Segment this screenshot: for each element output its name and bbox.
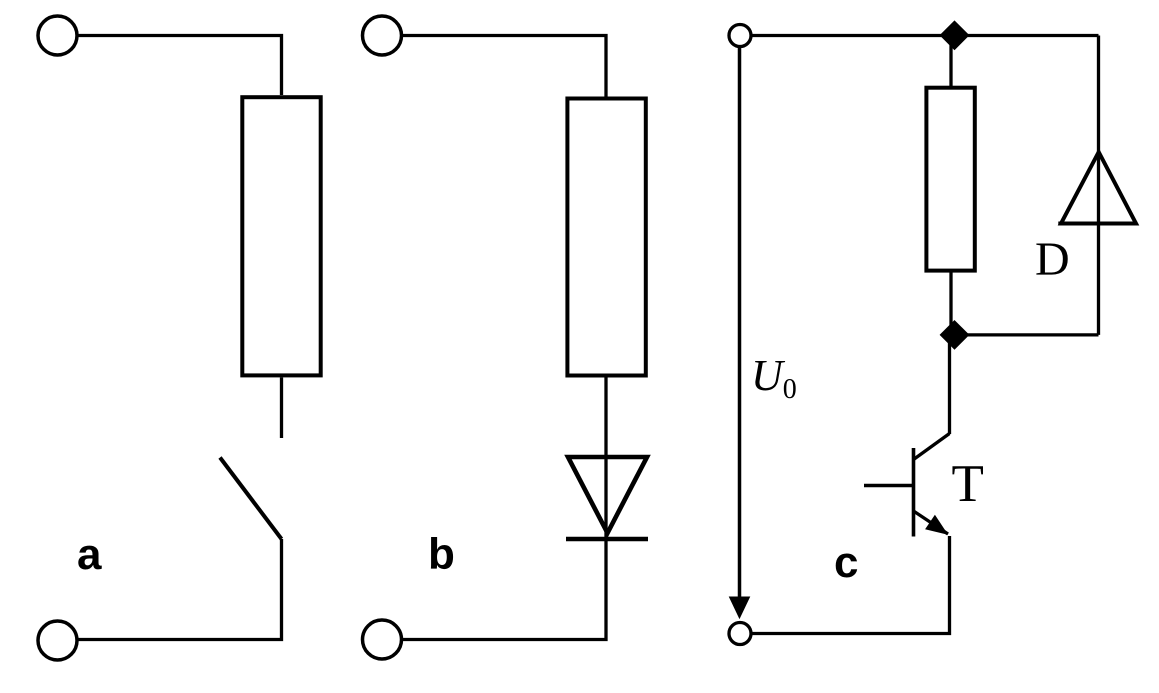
junction node (c, lower diamond) bbox=[940, 321, 968, 349]
wire (c: emitter to bottom rail) bbox=[752, 536, 950, 634]
switch S (open blade) bbox=[220, 458, 282, 540]
terminal (circuit a, bottom) bbox=[38, 621, 77, 660]
wire (c: top rail) bbox=[752, 34, 1099, 37]
svg-text:T: T bbox=[952, 455, 984, 513]
wire (c: right branch vertical through diode D) bbox=[1097, 36, 1100, 335]
wire (c: resistor to lower diamond) bbox=[949, 271, 952, 330]
wire (c: lower diamond to right branch) bbox=[953, 333, 1099, 336]
diode (circuit b, cathode bar) bbox=[566, 537, 648, 542]
transistor T emitter lead bbox=[914, 511, 949, 534]
terminal (circuit c, bottom left) bbox=[729, 623, 751, 645]
transistor T collector lead bbox=[914, 434, 950, 460]
transistor T emitter arrowhead bbox=[926, 516, 947, 534]
wire (c: lower diamond to transistor collector) bbox=[948, 340, 951, 434]
svg-text:a: a bbox=[77, 530, 102, 579]
svg-text:D: D bbox=[1035, 233, 1070, 286]
resistor (circuit b) bbox=[567, 99, 645, 376]
diode D (triangle) bbox=[1061, 152, 1136, 224]
terminal (circuit b, bottom) bbox=[363, 620, 402, 659]
wire (b: resistor through diode to bottom) bbox=[402, 378, 607, 640]
terminal (circuit a, top) bbox=[38, 16, 77, 55]
voltage arrow U0 (line) bbox=[738, 47, 742, 600]
svg-text:c: c bbox=[834, 538, 858, 587]
diode (circuit b, anode triangle) bbox=[568, 457, 647, 533]
transistor T base bar bbox=[912, 448, 916, 537]
wire (a: switch to bottom) bbox=[77, 539, 282, 640]
junction node (c, top diamond) bbox=[940, 21, 968, 49]
voltage arrow U0 (head) bbox=[730, 597, 750, 618]
transistor T base lead bbox=[864, 484, 914, 488]
resistor (circuit a) bbox=[242, 97, 320, 375]
wire (b: top terminal to resistor) bbox=[402, 36, 607, 97]
wire (c: diamond to resistor) bbox=[949, 44, 952, 88]
wire (a: resistor to switch) bbox=[280, 378, 283, 439]
terminal (circuit c, top left) bbox=[729, 25, 751, 47]
terminal (circuit b, top) bbox=[363, 16, 402, 55]
diode D (bar) bbox=[1058, 222, 1137, 226]
resistor (circuit c) bbox=[926, 88, 974, 271]
wire (a: top terminal to resistor) bbox=[77, 36, 282, 96]
svg-text:b: b bbox=[428, 530, 455, 579]
